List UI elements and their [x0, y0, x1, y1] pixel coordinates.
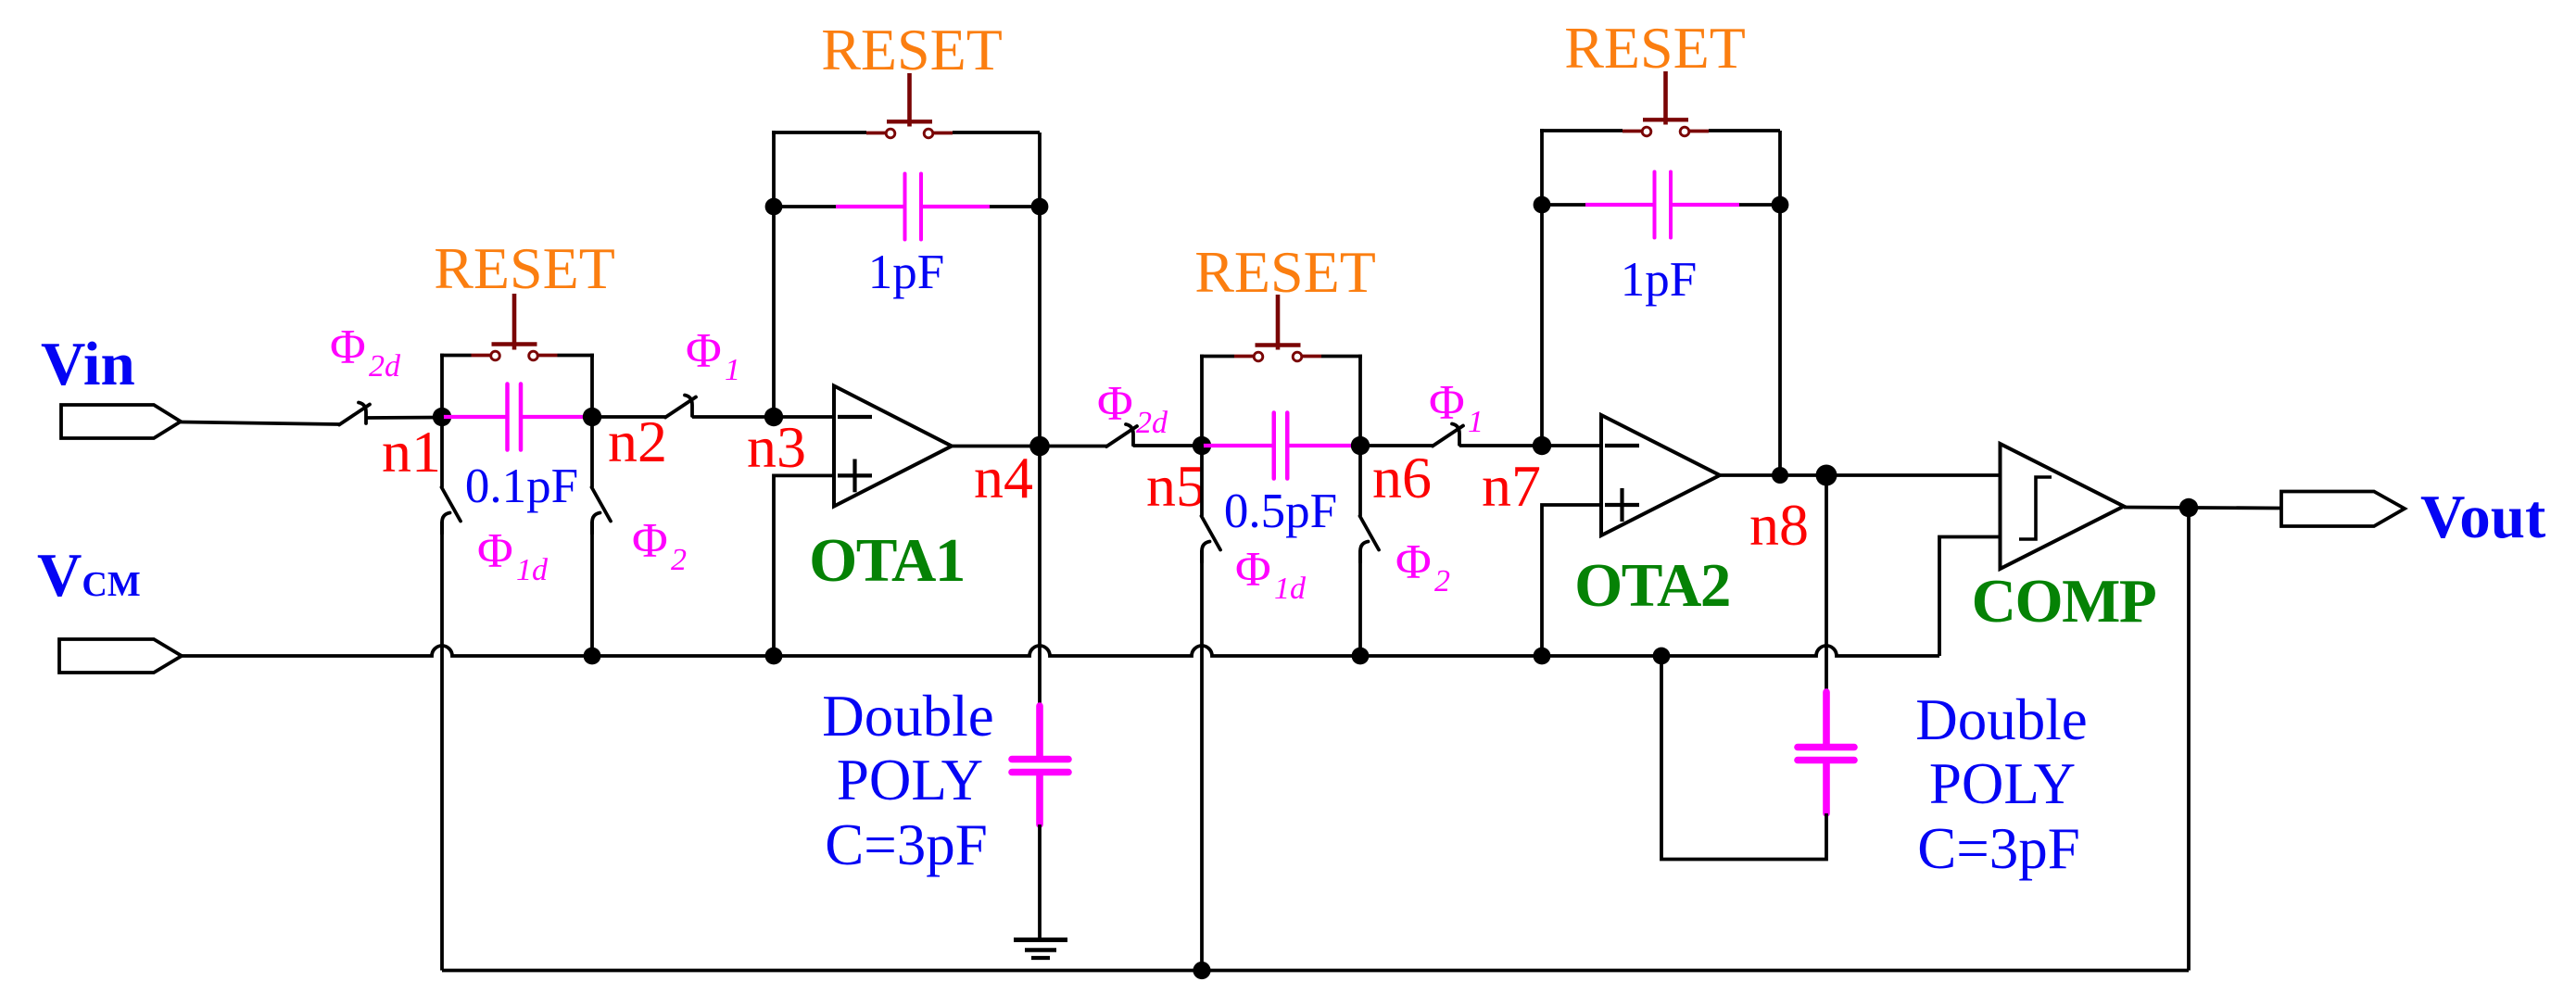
- node feedback1 left at C2: [765, 198, 783, 216]
- node feedback2 junction at output: [1772, 467, 1788, 484]
- wire CP2 loop to rail: [1661, 656, 1826, 860]
- wire n2 down to S5: [590, 417, 594, 487]
- switch PHI2 S5: [592, 487, 612, 534]
- svg-text:1: 1: [1468, 405, 1484, 439]
- wire rail to COMP noninverting input: [1939, 537, 2001, 657]
- svg-text:2: 2: [1434, 564, 1450, 598]
- svg-text:RESET: RESET: [821, 17, 1003, 82]
- wire feedback1 left vertical: [772, 131, 776, 417]
- label n2: [608, 409, 667, 474]
- label n5: [1146, 453, 1206, 519]
- label PHI1d S6: [1235, 543, 1307, 606]
- wire S7 to rail: [1358, 550, 1362, 656]
- wire S8 to n7: [1459, 444, 1542, 447]
- capacitor C1 0.1pF: [442, 384, 592, 450]
- svg-text:Φ: Φ: [686, 324, 722, 378]
- wire VCM rail: [182, 646, 1939, 656]
- svg-text:RESET: RESET: [434, 235, 615, 301]
- node n3: [764, 408, 783, 426]
- node n6: [1351, 436, 1370, 455]
- node n4: [1029, 436, 1050, 457]
- wire n5 up to RS3: [1200, 355, 1204, 447]
- label C4 1pF: [1621, 253, 1697, 307]
- svg-text:COMP: COMP: [1972, 567, 2156, 636]
- label C1 0.1pF: [465, 459, 578, 513]
- wire n1 up to RS1: [440, 354, 444, 419]
- switch PHI2 S7: [1360, 516, 1380, 562]
- ground: [1014, 940, 1067, 959]
- wire n1 down to S4: [440, 417, 444, 487]
- svg-text:Φ: Φ: [1235, 543, 1271, 597]
- svg-text:Double: Double: [822, 684, 993, 749]
- svg-text:C=3pF: C=3pF: [825, 812, 988, 877]
- capacitor C4 1pF: [1542, 172, 1780, 238]
- svg-text:OTA2: OTA2: [1574, 551, 1730, 620]
- label n4: [974, 445, 1033, 510]
- wire bottom feedback: [442, 969, 2189, 973]
- svg-text:Φ: Φ: [1395, 535, 1432, 589]
- node n2: [583, 408, 601, 426]
- label PHI1 S8: [1429, 376, 1484, 439]
- wire S4 to bottom wire: [440, 522, 444, 971]
- wire OTA1 noninverting input to rail: [774, 475, 834, 656]
- wire Vin to switch S1: [181, 422, 339, 425]
- label n8: [1749, 492, 1809, 558]
- wire S6 to bottom wire: [1200, 550, 1204, 971]
- wire feedback2 right vertical: [1778, 131, 1782, 475]
- svg-text:Φ: Φ: [1429, 376, 1465, 430]
- svg-text:Vout: Vout: [2420, 483, 2546, 551]
- svg-text:2d: 2d: [369, 349, 401, 384]
- label PHI1d S4: [477, 524, 549, 587]
- label n6: [1372, 445, 1432, 510]
- svg-text:1d: 1d: [1274, 572, 1307, 606]
- node CP2 loop at rail: [1653, 648, 1671, 665]
- comparator COMP: [2001, 444, 2125, 569]
- wire n4 to S3: [1040, 445, 1106, 448]
- label RESET RS1: [434, 235, 615, 301]
- svg-text:1: 1: [725, 353, 740, 387]
- wire feedback2 top left: [1540, 129, 1623, 132]
- svg-text:n5: n5: [1146, 453, 1206, 519]
- svg-text:1pF: 1pF: [868, 245, 944, 299]
- op-amp OTA1: [834, 386, 952, 507]
- svg-text:n1: n1: [382, 419, 441, 485]
- node feedback2 left at C4: [1534, 196, 1551, 214]
- svg-text:Φ: Φ: [632, 514, 668, 568]
- wire CP1 to ground: [1038, 824, 1042, 938]
- node S7 at rail: [1352, 648, 1370, 665]
- label Vout: [2420, 483, 2546, 551]
- switch PHI1d S4: [442, 487, 461, 534]
- svg-text:VCM: VCM: [37, 541, 141, 610]
- label OTA2: [1574, 551, 1730, 620]
- svg-text:2d: 2d: [1136, 406, 1168, 440]
- node n1: [433, 408, 451, 426]
- node S6 at bottom wire: [1193, 962, 1210, 979]
- label PHI2 S7: [1395, 535, 1450, 598]
- node OTA1 + at rail: [765, 648, 783, 665]
- label COMP: [1972, 567, 2156, 636]
- svg-text:n7: n7: [1482, 453, 1541, 519]
- wire OTA1 output to n4: [952, 445, 1040, 448]
- wire n3 to OTA1 inverting input: [774, 415, 834, 419]
- wire feedback1 top left: [772, 131, 866, 134]
- label RESET RS3: [1194, 239, 1376, 305]
- node Vout feedback junction: [2179, 498, 2198, 517]
- switch PHI2d S1: [339, 403, 370, 425]
- label PHI1 S2: [686, 324, 740, 387]
- port Vout: [2281, 492, 2405, 527]
- wire n8 down to CP2: [1825, 475, 1828, 692]
- label CP1 double poly: [822, 684, 993, 877]
- switch PHI1d S6: [1202, 516, 1221, 562]
- port VCM: [59, 639, 182, 673]
- label VCM: [37, 541, 141, 610]
- reset switch RS2 on OTA1 feedback: [866, 73, 1040, 138]
- label OTA1: [809, 526, 965, 595]
- svg-text:POLY: POLY: [1929, 751, 2076, 816]
- op-amp OTA2: [1601, 415, 1720, 535]
- switch PHI1 S8: [1433, 424, 1463, 447]
- reset switch RS3: [1200, 295, 1362, 361]
- label n7: [1482, 453, 1541, 519]
- port Vin: [61, 405, 181, 438]
- svg-text:POLY: POLY: [837, 748, 983, 812]
- svg-text:RESET: RESET: [1564, 15, 1746, 81]
- switch PHI2d S3: [1106, 424, 1137, 447]
- label n1: [382, 419, 441, 485]
- wire n6 down to S7: [1358, 446, 1362, 516]
- capacitor C2 1pF: [774, 174, 1040, 240]
- svg-text:Φ: Φ: [477, 524, 513, 578]
- svg-text:1pF: 1pF: [1621, 253, 1697, 307]
- capacitor CP2 double poly 3pF: [1798, 689, 1854, 817]
- node S5 at rail: [584, 648, 601, 665]
- label PHI2d S3: [1097, 377, 1168, 440]
- wire feedback1 right vertical: [1038, 132, 1042, 447]
- node feedback1 right at C2: [1031, 198, 1049, 216]
- wire n4 down to CP1: [1038, 447, 1042, 707]
- label C3 0.5pF: [1224, 485, 1337, 538]
- wire n5 down to S6: [1200, 446, 1204, 516]
- svg-text:C=3pF: C=3pF: [1917, 816, 2080, 881]
- wire S1 to n1: [366, 416, 442, 420]
- wire S3 to n5: [1133, 444, 1202, 447]
- wire n2 to S2: [592, 415, 665, 419]
- wire n6 up to RS3: [1358, 355, 1362, 447]
- node feedback2 right at C4: [1772, 196, 1789, 214]
- wire feedback2 left vertical: [1540, 129, 1544, 446]
- reset switch RS1: [440, 294, 594, 360]
- wire n2 up to RS1: [590, 354, 594, 419]
- label RESET RS2: [821, 17, 1003, 82]
- node OTA2 + at rail: [1534, 648, 1551, 665]
- svg-text:Φ: Φ: [330, 321, 366, 374]
- wire n6 to S8: [1360, 444, 1433, 447]
- svg-text:RESET: RESET: [1194, 239, 1376, 305]
- wire OTA2 output to COMP: [1720, 473, 2001, 477]
- svg-text:Φ: Φ: [1097, 377, 1133, 431]
- label CP2 double poly: [1915, 687, 2087, 881]
- label PHI2d S1: [330, 321, 401, 384]
- wire S5 to rail: [590, 522, 594, 656]
- label PHI2 S5: [632, 514, 687, 577]
- svg-text:Double: Double: [1915, 687, 2087, 752]
- reset switch RS4 on OTA2 feedback: [1623, 71, 1780, 136]
- label Vin: [41, 330, 135, 398]
- label C2 1pF: [868, 245, 944, 299]
- svg-text:0.1pF: 0.1pF: [465, 459, 578, 513]
- svg-text:0.5pF: 0.5pF: [1224, 485, 1337, 538]
- svg-text:n4: n4: [974, 445, 1033, 510]
- label n3: [747, 414, 806, 480]
- capacitor C3 0.5pF: [1202, 413, 1360, 479]
- svg-text:2: 2: [671, 543, 687, 577]
- svg-text:1d: 1d: [516, 553, 549, 587]
- svg-text:n6: n6: [1372, 445, 1432, 510]
- node n8: [1816, 465, 1837, 486]
- wire COMP output to Vout: [2124, 508, 2281, 509]
- wire n7 to OTA2 inverting input: [1542, 444, 1601, 447]
- wire OTA2 noninverting input to rail: [1542, 505, 1601, 656]
- node n5: [1193, 436, 1211, 455]
- wire Vout feedback down: [2187, 508, 2191, 971]
- switch PHI1 S2: [665, 396, 696, 418]
- label RESET RS4: [1564, 15, 1746, 81]
- node n7: [1533, 436, 1551, 455]
- capacitor CP1 double poly 3pF: [1012, 703, 1068, 828]
- svg-text:Vin: Vin: [41, 330, 135, 398]
- svg-text:n3: n3: [747, 414, 806, 480]
- svg-text:OTA1: OTA1: [809, 526, 965, 595]
- wire S2 to n3: [692, 415, 774, 419]
- svg-text:n8: n8: [1749, 492, 1809, 558]
